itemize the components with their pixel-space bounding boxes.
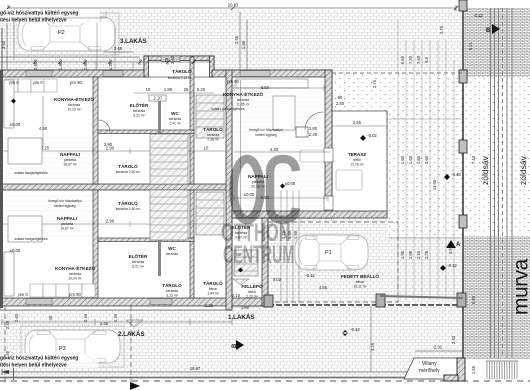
svg-text:murva: murva bbox=[510, 258, 530, 315]
property dashed line bottom bbox=[0, 380, 530, 382]
carport roof dashed outline bbox=[268, 222, 398, 302]
window sill top wall b bbox=[103, 71, 123, 77]
dotted garden strip right of building bbox=[388, 73, 463, 237]
room label konyha right unit bbox=[223, 90, 263, 107]
wall party vertical bbox=[226, 70, 232, 310]
top dimension line bbox=[6, 5, 458, 11]
villany wall foot bbox=[444, 375, 458, 381]
svg-text:ELŐTÉR: ELŐTÉR bbox=[130, 101, 149, 108]
door arc right unit to terrace bbox=[305, 112, 323, 130]
svg-text:18,97 m²: 18,97 m² bbox=[63, 163, 77, 167]
svg-text:40: 40 bbox=[48, 315, 53, 320]
room label eloter top bbox=[130, 101, 149, 118]
svg-text:16,67 m²: 16,67 m² bbox=[60, 227, 74, 231]
vertical dim chain right of building bbox=[398, 20, 454, 300]
dim line terasz bbox=[332, 125, 386, 127]
svg-text:szálas hangszigetelés: szálas hangszigetelés bbox=[211, 107, 244, 111]
svg-text:±0.00: ±0.00 bbox=[10, 248, 21, 253]
level marker -0.12 carport bbox=[305, 273, 315, 278]
kitchen counter top left bbox=[4, 80, 14, 128]
svg-text:1.90: 1.90 bbox=[424, 155, 429, 164]
svg-text:20.83: 20.83 bbox=[228, 3, 239, 8]
tick slashes dim row bbox=[6, 6, 458, 64]
svg-text:mérőhely: mérőhely bbox=[419, 368, 440, 374]
wall top right block bbox=[212, 70, 332, 77]
section marker B bottom bbox=[232, 340, 244, 350]
svg-text:pm 90: pm 90 bbox=[70, 80, 82, 85]
kitchen counter bottom left bbox=[4, 252, 14, 296]
svg-text:2.40: 2.40 bbox=[33, 61, 38, 70]
svg-text:2.25: 2.25 bbox=[424, 250, 429, 259]
svg-text:kerámia 3,18 m²: kerámia 3,18 m² bbox=[168, 76, 193, 80]
svg-text:7.40: 7.40 bbox=[416, 55, 421, 64]
dim 2.31 bottom right bbox=[415, 350, 462, 352]
wall wc divider bottom bbox=[158, 238, 161, 276]
wall bottom bbox=[0, 298, 270, 306]
white entry block right unit bbox=[232, 218, 268, 306]
svg-text:P1: P1 bbox=[325, 250, 332, 256]
star marker entry bbox=[238, 268, 243, 273]
entry steps triangle top bbox=[126, 320, 143, 327]
svg-text:ítési helyen belül elhelyezve: ítési helyen belül elhelyezve bbox=[0, 18, 67, 24]
svg-text:kerámia: kerámia bbox=[68, 103, 80, 107]
svg-text:kerámia: kerámia bbox=[235, 231, 247, 235]
svg-text:±0.00: ±0.00 bbox=[10, 122, 21, 127]
kitchen table bottom left bbox=[8, 216, 42, 242]
star marker left bbox=[11, 99, 16, 104]
parquet lines nappali left upper bbox=[4, 138, 92, 178]
post right boundary mid2 bbox=[459, 215, 467, 228]
svg-text:NAPPALI: NAPPALI bbox=[248, 174, 268, 179]
svg-text:beton: beton bbox=[356, 280, 365, 284]
svg-text:beltéri egység: beltéri egység bbox=[255, 133, 276, 137]
svg-text:kerámia: kerámia bbox=[237, 98, 249, 102]
room label nappali top left bbox=[60, 152, 80, 167]
vertical lines through P2 bay bbox=[97, 14, 115, 70]
bottom-left note box bbox=[0, 353, 98, 369]
stairs top unit bbox=[150, 134, 188, 184]
svg-text:2.15: 2.15 bbox=[416, 250, 421, 259]
svg-text:1.80: 1.80 bbox=[309, 126, 318, 131]
east wall window 1 bbox=[324, 148, 333, 162]
dotted strip above terrace bbox=[331, 73, 391, 111]
svg-text:4.40: 4.40 bbox=[270, 147, 279, 152]
svg-text:7.20: 7.20 bbox=[408, 55, 413, 64]
carport post right bbox=[376, 294, 385, 307]
svg-text:kerámia: kerámia bbox=[132, 260, 144, 264]
svg-text:FELLÉPŐ: FELLÉPŐ bbox=[241, 282, 263, 289]
svg-text:2,38 m²: 2,38 m² bbox=[207, 138, 219, 142]
vertical line x371 bottom bbox=[370, 306, 372, 372]
svg-text:TÁROLÓ: TÁROLÓ bbox=[118, 199, 138, 206]
hedge dashed center line bbox=[502, 8, 504, 358]
svg-text:levegő-víz hőszivattyú: levegő-víz hőszivattyú bbox=[249, 128, 282, 132]
svg-text:1.40: 1.40 bbox=[287, 230, 292, 239]
dim line right unit nappali bbox=[234, 195, 328, 201]
svg-text:térkő: térkő bbox=[248, 290, 256, 294]
svg-text:kerámia: kerámia bbox=[207, 133, 219, 137]
window sill bottom wall a bbox=[26, 299, 52, 305]
villany wall L bbox=[457, 358, 465, 381]
wall interior h1 bbox=[98, 130, 194, 134]
dimension row above building bbox=[0, 57, 212, 65]
middle vertical dim line top bbox=[240, 12, 247, 70]
stairs right unit bbox=[234, 250, 258, 276]
svg-text:pm 0: pm 0 bbox=[33, 80, 43, 85]
bottom-left tick line bbox=[13, 364, 15, 380]
svg-text:2.45: 2.45 bbox=[100, 321, 109, 326]
car P3 bbox=[25, 330, 120, 363]
nappali right sofa bbox=[300, 150, 324, 162]
svg-text:TÁROLÓ: TÁROLÓ bbox=[172, 67, 192, 74]
svg-text:2.40: 2.40 bbox=[336, 101, 345, 106]
tarolo dim row bbox=[146, 87, 206, 92]
svg-text:11.95: 11.95 bbox=[432, 179, 437, 190]
svg-text:20,18 m²: 20,18 m² bbox=[251, 185, 265, 189]
svg-text:3,15 m²: 3,15 m² bbox=[166, 294, 178, 298]
below-wall rotated dims bbox=[14, 313, 118, 322]
svg-text:18.67: 18.67 bbox=[190, 366, 201, 371]
svg-text:6.60: 6.60 bbox=[400, 55, 405, 64]
svg-text:szálas hangszigetelés: szálas hangszigetelés bbox=[14, 237, 47, 241]
svg-text:1,44 m²: 1,44 m² bbox=[207, 292, 219, 296]
svg-text:4.85: 4.85 bbox=[319, 285, 328, 290]
watermark OTTHON bbox=[221, 220, 291, 247]
svg-text:kerámia 2,60 m²: kerámia 2,60 m² bbox=[116, 207, 141, 211]
svg-text:3.50: 3.50 bbox=[1, 40, 6, 49]
level marker -0.45 bbox=[444, 172, 461, 180]
svg-text:gő-víz hőszivattyú kültéri egy: gő-víz hőszivattyú kültéri egység bbox=[0, 11, 78, 17]
room label tarolo bottom right bbox=[203, 279, 223, 296]
carport post left bbox=[264, 295, 273, 307]
svg-text:FEDETT BEÁLLÓ: FEDETT BEÁLLÓ bbox=[341, 272, 379, 279]
svg-text:2.31: 2.31 bbox=[434, 345, 443, 350]
post right boundary mid1 bbox=[459, 140, 467, 153]
wall interior h2 bbox=[98, 238, 194, 242]
white room block right unit bbox=[232, 70, 332, 218]
svg-text:2,41 m²: 2,41 m² bbox=[169, 122, 181, 126]
svg-text:A: A bbox=[456, 242, 461, 248]
svg-text:2.40: 2.40 bbox=[309, 132, 318, 137]
wall storage left bbox=[144, 56, 149, 77]
svg-text:pm 0: pm 0 bbox=[9, 80, 19, 85]
svg-text:B: B bbox=[232, 343, 238, 348]
svg-text:2.40: 2.40 bbox=[170, 55, 175, 64]
star marker nappali bbox=[280, 184, 285, 189]
svg-text:NAPPALI: NAPPALI bbox=[60, 152, 80, 157]
svg-text:10,14 m²: 10,14 m² bbox=[68, 277, 82, 281]
level marker -0.12 bottom bbox=[342, 327, 360, 336]
window sill top wall right bbox=[240, 71, 270, 77]
svg-text:1.20: 1.20 bbox=[108, 61, 113, 70]
svg-text:7.43: 7.43 bbox=[471, 155, 476, 164]
wall interior v1 lower bbox=[93, 190, 98, 298]
svg-text:kerámia: kerámia bbox=[169, 117, 181, 121]
svg-text:2.90: 2.90 bbox=[106, 219, 115, 224]
svg-text:1.20: 1.20 bbox=[113, 313, 118, 322]
svg-text:3.LAKÁS: 3.LAKÁS bbox=[120, 38, 146, 45]
dim line right unit kitchen bbox=[234, 85, 324, 91]
svg-text:5.80: 5.80 bbox=[471, 295, 476, 304]
connector lines dim row to wall bbox=[96, 62, 133, 70]
note heat pump left bbox=[48, 199, 81, 208]
terrace white floor bbox=[332, 111, 387, 212]
window sill top wall a bbox=[26, 71, 52, 77]
svg-text:5.21: 5.21 bbox=[468, 41, 473, 50]
stairs middle strip lower bbox=[196, 192, 224, 235]
svg-text:1.95: 1.95 bbox=[400, 250, 405, 259]
hedge vertical lines through right strips bbox=[491, 8, 513, 358]
svg-text:P2: P2 bbox=[58, 30, 65, 36]
plot corner post bbox=[457, 293, 466, 307]
svg-text:pm 0: pm 0 bbox=[18, 292, 28, 297]
property solid line bottom bbox=[0, 377, 462, 379]
dim line vertical right unit bbox=[240, 80, 242, 216]
svg-text:0.02: 0.02 bbox=[273, 277, 282, 282]
svg-text:kerámia: kerámia bbox=[133, 109, 145, 113]
svg-text:1.85: 1.85 bbox=[164, 87, 173, 92]
svg-text:B: B bbox=[486, 28, 491, 34]
dim line vertical left kitchen bbox=[42, 96, 44, 148]
entry steps triangle fellepo bbox=[233, 279, 249, 285]
svg-text:CENTRUM: CENTRUM bbox=[223, 242, 294, 269]
room label konyha top left bbox=[54, 95, 94, 112]
dashed line left edge bbox=[4, 306, 6, 382]
left edge rotated dims bbox=[5, 320, 10, 359]
interior dim line lower bbox=[3, 221, 226, 227]
svg-text:2.76: 2.76 bbox=[439, 25, 444, 34]
svg-text:NAPPALI: NAPPALI bbox=[57, 216, 77, 221]
svg-text:16,11 m²: 16,11 m² bbox=[353, 285, 367, 289]
svg-text:térkő: térkő bbox=[353, 158, 361, 162]
tile lines konyha right bbox=[234, 92, 322, 132]
note heat pump right bbox=[249, 128, 282, 137]
kitchen cabinets bottom row bbox=[30, 284, 95, 297]
svg-text:beltéri egység: beltéri egység bbox=[54, 204, 75, 208]
svg-text:-0.45: -0.45 bbox=[451, 172, 461, 177]
room label terasz bbox=[348, 152, 367, 167]
dashed unit boundary bottom left bbox=[130, 306, 132, 382]
door arc left bbox=[98, 120, 110, 132]
svg-text:TÁROLÓ: TÁROLÓ bbox=[203, 125, 223, 132]
svg-text:1.95: 1.95 bbox=[408, 250, 413, 259]
svg-text:2.40: 2.40 bbox=[5, 350, 10, 359]
svg-text:2.40: 2.40 bbox=[5, 320, 10, 329]
car P2 bbox=[18, 17, 115, 51]
svg-text:1.40: 1.40 bbox=[58, 61, 63, 70]
east wall window 2 bbox=[324, 196, 333, 210]
svg-text:1.60: 1.60 bbox=[400, 155, 405, 164]
murva gravel area bottom right bbox=[464, 236, 530, 359]
horizontal line garden boundary bbox=[380, 296, 463, 298]
room label tarolo storage top bbox=[168, 67, 193, 80]
level marker -0.12 right bbox=[440, 263, 457, 271]
svg-text:Villany: Villany bbox=[422, 361, 437, 367]
svg-text:kerámia 2,60 m²: kerámia 2,60 m² bbox=[116, 170, 141, 174]
kitchen counter right unit bbox=[236, 79, 308, 88]
svg-text:KONYHA-ÉTKEZŐ: KONYHA-ÉTKEZŐ bbox=[223, 90, 263, 97]
svg-text:TERASZ: TERASZ bbox=[348, 152, 367, 157]
wall interior v2 bbox=[190, 57, 194, 184]
svg-text:pm 90: pm 90 bbox=[69, 292, 81, 297]
svg-text:WC: WC bbox=[168, 246, 176, 251]
stairs middle strip upper bbox=[196, 95, 224, 138]
svg-text:0,87 m²: 0,87 m² bbox=[235, 236, 247, 240]
dim line below building bbox=[2, 319, 232, 325]
svg-text:TÁROLÓ: TÁROLÓ bbox=[162, 281, 182, 288]
svg-text:9.5: 9.5 bbox=[424, 56, 429, 62]
room label konyha bottom left bbox=[55, 264, 95, 281]
svg-text:10,16 m²: 10,16 m² bbox=[67, 108, 81, 112]
room label nappali right bbox=[248, 174, 268, 189]
room label tarolo mid bottom bbox=[116, 199, 141, 211]
dim arrow left bbox=[1, 370, 9, 374]
parking bay P3 outline bbox=[21, 326, 124, 367]
rotated small dims above building bbox=[33, 55, 175, 70]
room label tarolo mid top bbox=[116, 162, 141, 174]
svg-text:5.25: 5.25 bbox=[197, 87, 206, 92]
post right boundary top bbox=[459, 0, 467, 11]
svg-text:2.45: 2.45 bbox=[234, 35, 239, 44]
svg-text:1.80: 1.80 bbox=[416, 155, 421, 164]
garden top dashed line bbox=[332, 72, 463, 74]
room label wc bottom bbox=[166, 246, 178, 256]
room label nappali bottom left bbox=[57, 216, 77, 231]
wall west edge bbox=[0, 70, 3, 308]
svg-text:levegő-víz hőszivattyú: levegő-víz hőszivattyú bbox=[48, 199, 81, 203]
left boundary line upper bbox=[1, 28, 3, 70]
svg-text:90: 90 bbox=[338, 95, 343, 100]
svg-text:TÁROLÓ: TÁROLÓ bbox=[118, 162, 138, 169]
svg-text:±0.00: ±0.00 bbox=[244, 192, 255, 197]
watermark OC logo bbox=[234, 159, 297, 220]
svg-text:25: 25 bbox=[184, 87, 189, 92]
svg-text:kerámia: kerámia bbox=[166, 252, 178, 256]
murva gravel area top right bbox=[464, 8, 530, 77]
svg-text:2.90: 2.90 bbox=[104, 142, 113, 147]
top-left note box bbox=[0, 9, 106, 60]
white room block top storage bbox=[144, 56, 214, 77]
carport bottom edge bbox=[268, 304, 462, 306]
svg-text:-0.12: -0.12 bbox=[305, 273, 315, 278]
svg-text:kerámia: kerámia bbox=[69, 272, 81, 276]
svg-text:TÁROLÓ: TÁROLÓ bbox=[203, 279, 223, 286]
svg-text:P3: P3 bbox=[59, 346, 66, 352]
svg-text:±0.00: ±0.00 bbox=[285, 181, 296, 186]
dim texts middle top bbox=[234, 35, 246, 49]
svg-text:szálas hangszigetelés: szálas hangszigetelés bbox=[14, 171, 47, 175]
room label eloter right unit bbox=[232, 223, 251, 240]
svg-text:1.80: 1.80 bbox=[241, 305, 250, 310]
svg-text:zöldsáv: zöldsáv bbox=[480, 155, 490, 185]
svg-text:1.65: 1.65 bbox=[471, 365, 476, 374]
parquet lines nappali right bbox=[234, 146, 324, 206]
svg-text:parketta: parketta bbox=[64, 158, 76, 162]
svg-text:1.60: 1.60 bbox=[408, 155, 413, 164]
stairs second unit bbox=[150, 190, 188, 240]
villany merohely box bbox=[404, 358, 460, 379]
svg-text:4.90: 4.90 bbox=[39, 126, 48, 131]
svg-text:KONYHA-ÉTKEZŐ: KONYHA-ÉTKEZŐ bbox=[54, 95, 94, 102]
svg-text:-0.02: -0.02 bbox=[367, 133, 377, 138]
svg-text:-0.12: -0.12 bbox=[350, 327, 360, 332]
svg-text:kerámia: kerámia bbox=[166, 289, 178, 293]
wall east right block bbox=[325, 70, 332, 218]
svg-text:10: 10 bbox=[146, 87, 151, 92]
wall wc divider top bbox=[158, 95, 161, 133]
room label fellepo bbox=[241, 282, 263, 299]
interior dim texts scattered bbox=[9, 79, 361, 326]
svg-text:2.40: 2.40 bbox=[451, 335, 456, 344]
heat pump indoor unit box bbox=[296, 127, 308, 137]
svg-text:12,76 m²: 12,76 m² bbox=[350, 163, 364, 167]
svg-text:2.10: 2.10 bbox=[232, 293, 241, 298]
grate bottom right bbox=[486, 361, 518, 379]
svg-text:KONYHA-ÉTKEZŐ: KONYHA-ÉTKEZŐ bbox=[55, 264, 95, 271]
svg-text:WC: WC bbox=[171, 111, 179, 116]
svg-text:5.90: 5.90 bbox=[261, 195, 270, 200]
svg-text:75: 75 bbox=[164, 57, 169, 62]
white room block left unit bbox=[0, 70, 232, 310]
svg-text:-0.12: -0.12 bbox=[473, 13, 483, 18]
svg-text:-0.12: -0.12 bbox=[447, 263, 457, 268]
svg-text:5.50: 5.50 bbox=[261, 85, 270, 90]
wall carport left bbox=[262, 218, 268, 306]
room label wc top bbox=[169, 111, 182, 126]
parquet lines nappali left lower bbox=[4, 196, 92, 236]
north arrow bottom bbox=[130, 382, 140, 390]
svg-text:gő-víz hőszivattyú kültéri egy: gő-víz hőszivattyú kültéri egység bbox=[0, 356, 78, 362]
left vertical dimension line bbox=[4, 12, 10, 70]
svg-text:6,21 m²: 6,21 m² bbox=[133, 114, 145, 118]
wall storage right bbox=[210, 56, 215, 77]
window sill bottom wall b bbox=[150, 299, 172, 305]
svg-text:2.40: 2.40 bbox=[14, 313, 19, 322]
terasz table bbox=[336, 170, 362, 190]
room label eloter bottom bbox=[129, 252, 148, 269]
svg-text:2.74: 2.74 bbox=[372, 79, 377, 88]
room label fedett beallo bbox=[341, 272, 379, 289]
svg-text:1.85: 1.85 bbox=[241, 40, 246, 49]
wall interior v2 lower bbox=[190, 190, 194, 298]
2.10 box bbox=[149, 95, 166, 101]
svg-text:1.60: 1.60 bbox=[293, 230, 298, 239]
section marker A right bbox=[446, 240, 461, 248]
carport interior dim lines bbox=[281, 190, 299, 303]
svg-text:parketta: parketta bbox=[61, 222, 73, 226]
wall interior v1 bbox=[93, 77, 98, 184]
tarolo door sill bbox=[161, 56, 180, 62]
svg-text:2.45: 2.45 bbox=[114, 46, 123, 51]
post top right garden bbox=[459, 70, 467, 83]
watermark CENTRUM bbox=[223, 242, 294, 269]
svg-text:2,20 m²: 2,20 m² bbox=[246, 295, 258, 299]
rotated dims right side bbox=[370, 25, 476, 374]
svg-text:1.25: 1.25 bbox=[205, 303, 214, 308]
kitchen cabinets top row bbox=[5, 79, 57, 92]
svg-text:zöldsáv: zöldsáv bbox=[518, 155, 528, 185]
svg-text:ítési helyen belül elhelyezve: ítési helyen belül elhelyezve bbox=[0, 363, 67, 369]
svg-text:6,21 m²: 6,21 m² bbox=[132, 265, 144, 269]
level marker -0.02 terasz bbox=[360, 133, 377, 141]
zoldsav green strip background bbox=[464, 77, 530, 232]
svg-text:1.40: 1.40 bbox=[281, 230, 286, 239]
svg-text:ELŐTÉR: ELŐTÉR bbox=[232, 223, 251, 230]
svg-text:pm 90: pm 90 bbox=[227, 79, 239, 84]
kitchen table top left bbox=[8, 138, 42, 164]
svg-text:2.10: 2.10 bbox=[153, 96, 162, 101]
interior dim line upper bbox=[3, 148, 226, 154]
